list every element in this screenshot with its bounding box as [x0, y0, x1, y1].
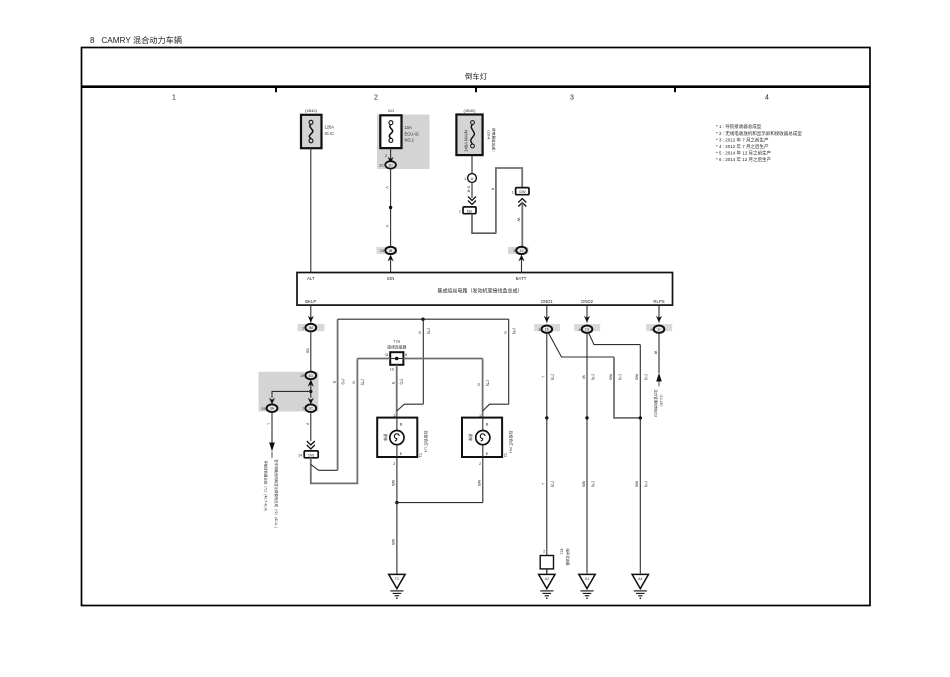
wire L (*3) down — [546, 333, 548, 574]
riser wire R(*4) (thick) — [337, 319, 339, 470]
svg-text:3: 3 — [538, 328, 540, 332]
arrow into 7(3C) — [308, 398, 314, 405]
svg-text:4: 4 — [765, 95, 769, 102]
svg-text:2: 2 — [543, 550, 545, 554]
svg-text:WB: WB — [581, 481, 585, 488]
svg-text:T1: T1 — [418, 453, 422, 457]
connector GW — [511, 188, 529, 195]
svg-text:R: R — [418, 331, 422, 334]
svg-text:2: 2 — [479, 462, 481, 466]
fuse F1 120A IG IC label (1B42) — [301, 108, 334, 148]
riser WB(*4) via jog (thick) — [614, 357, 640, 418]
wire pin10 to LH lamp (thick) — [396, 365, 398, 418]
svg-text:A1: A1 — [585, 577, 589, 581]
svg-text:(*3): (*3) — [591, 481, 595, 487]
svg-text:B: B — [400, 423, 403, 427]
svg-text:11: 11 — [385, 353, 389, 357]
jog LH pin1 — [397, 404, 423, 411]
wire W (*3) down — [586, 333, 588, 574]
svg-text:* 5 : 2014 年 12 月之前生产: * 5 : 2014 年 12 月之前生产 — [716, 150, 772, 157]
gray relay group region — [259, 372, 319, 412]
wire SB — [310, 332, 312, 372]
svg-text:导航接收器总成〈*1〉(40.7-41.4): 导航接收器总成〈*1〉(40.7-41.4) — [264, 461, 269, 511]
svg-text:R: R — [391, 382, 395, 385]
svg-text:3: 3 — [570, 95, 574, 102]
svg-text:14: 14 — [298, 454, 302, 458]
wire DD down and right — [472, 214, 496, 233]
arrow up into 3(1J) — [518, 255, 524, 262]
svg-text:DD: DD — [467, 209, 473, 213]
junction dot — [309, 390, 312, 393]
svg-text:3A: 3A — [270, 407, 275, 411]
T2a junction connector box — [390, 352, 403, 365]
svg-text:R: R — [490, 188, 494, 191]
wire P from 3C — [310, 412, 312, 441]
wire RLPS pin down — [658, 305, 660, 322]
svg-text:* 1 : 导航接收器总成型: * 1 : 导航接收器总成型 — [716, 123, 762, 130]
ground A2 — [539, 574, 555, 599]
svg-text:RLPS: RLPS — [653, 299, 664, 304]
connector 4(1G) — [574, 324, 600, 333]
wire junction below 4D — [310, 385, 312, 398]
connector 9(1I) — [646, 324, 672, 333]
arrow into 1(IM) — [308, 316, 314, 323]
connector 15(IB) at IGN — [377, 247, 398, 254]
svg-text:GW: GW — [519, 190, 526, 194]
svg-text:29: 29 — [261, 407, 265, 411]
svg-text:3C: 3C — [309, 407, 314, 411]
svg-text:(1B42): (1B42) — [463, 108, 476, 113]
svg-text:4Z1: 4Z1 — [560, 549, 564, 555]
svg-text:〈29-A: 〈29-A — [487, 128, 492, 140]
wire WB below LH lamp — [396, 457, 398, 503]
svg-text:V: V — [385, 186, 390, 189]
svg-text:T2a: T2a — [394, 340, 401, 344]
wire GND2 pin down — [586, 305, 588, 322]
svg-text:* 3 : 2012 年 7 月之前生产: * 3 : 2012 年 7 月之前生产 — [716, 137, 769, 144]
branch diagonal from 4(1G) — [589, 333, 641, 345]
svg-text:(*4): (*4) — [644, 374, 648, 380]
svg-text:2: 2 — [374, 95, 378, 102]
svg-text:E: E — [400, 452, 403, 456]
svg-text:SB: SB — [305, 348, 309, 354]
branch diagonal from 3(1E) — [549, 333, 615, 357]
arrow into 3(1E) — [544, 316, 550, 323]
jog RH pin1 — [483, 404, 509, 411]
arrow into 9(1I) — [656, 316, 662, 323]
svg-text:后组合灯 LH: 后组合灯 LH — [424, 431, 429, 453]
svg-text:W: W — [581, 375, 585, 379]
wire D-R from circle A — [471, 182, 473, 198]
wire WB(*4) down to ground A4 — [639, 345, 641, 574]
goes-to arrow (to navigation unit) — [269, 443, 275, 452]
svg-text:ALT: ALT — [307, 276, 315, 281]
ground A1 — [579, 574, 595, 599]
svg-text:9: 9 — [405, 353, 407, 357]
svg-text:(*5): (*5) — [485, 380, 489, 386]
arrow up into 15(IB) — [388, 255, 394, 262]
svg-text:15: 15 — [380, 249, 384, 253]
column tick 1-2 — [275, 87, 277, 93]
svg-text:L: L — [541, 376, 545, 378]
svg-text:10A: 10A — [405, 125, 413, 130]
wire V from 3D down — [390, 169, 392, 247]
svg-text:1J: 1J — [520, 249, 524, 253]
svg-text:NO.1: NO.1 — [405, 138, 415, 143]
svg-text:驻车辑助音响和显示屏模块总成〈*2〉(41.4- ): 驻车辑助音响和显示屏模块总成〈*2〉(41.4- ) — [274, 460, 279, 528]
svg-text:IGN: IGN — [387, 276, 395, 281]
connector 14(1N1) — [298, 451, 318, 458]
svg-text:GND1: GND1 — [541, 299, 554, 304]
arrow into 29(3A) — [269, 398, 275, 405]
svg-text:WB: WB — [635, 374, 639, 381]
connector 3C(3D) — [379, 161, 396, 168]
noise filter box — [540, 556, 553, 569]
T2a arms (thick) — [357, 358, 482, 360]
svg-text:WB: WB — [477, 480, 481, 487]
svg-text:动力管理控制ECU: 动力管理控制ECU — [654, 390, 659, 418]
svg-text:L: L — [266, 423, 270, 425]
svg-text:(*4): (*4) — [618, 374, 622, 380]
svg-text:(*6): (*6) — [512, 328, 516, 334]
svg-text:IG IC: IG IC — [325, 131, 335, 136]
svg-text:A: A — [471, 176, 474, 181]
svg-text:WB: WB — [635, 481, 639, 488]
wire up across to GW (thick) — [496, 168, 522, 233]
svg-text:接线连接器: 接线连接器 — [387, 345, 406, 350]
svg-text:D-R: D-R — [466, 186, 470, 193]
svg-text:(1B42): (1B42) — [305, 108, 318, 113]
wire up-arrow to IGN pin — [390, 260, 392, 273]
ground join — [395, 501, 398, 504]
svg-text:W: W — [516, 218, 520, 222]
svg-text:R: R — [476, 383, 480, 386]
svg-text:IM: IM — [309, 326, 313, 330]
svg-text:1: 1 — [511, 190, 513, 194]
svg-text:140A MAIN: 140A MAIN — [464, 130, 469, 152]
svg-text:1: 1 — [479, 413, 481, 417]
splice dot GND2 — [585, 416, 588, 419]
lamp unit LH 后组合灯 LH — [377, 413, 428, 466]
wire GND1 pin down — [546, 305, 548, 322]
svg-text:R: R — [352, 381, 356, 384]
wire BKLP pin down — [310, 305, 312, 322]
svg-text:1: 1 — [302, 326, 304, 330]
connector 3(1J) at BATT — [508, 247, 529, 254]
MAIN-BOX main junction box 集成熔丝电路 — [297, 273, 673, 306]
wire branch diagonal to R(*4) riser — [311, 464, 338, 470]
svg-text:10: 10 — [390, 368, 394, 372]
fuse F2 10A ECU-IG NO.1 panel — [377, 108, 430, 169]
svg-text:2: 2 — [393, 462, 395, 466]
connector DD — [459, 207, 476, 214]
drop wire to LH lamp jog — [422, 319, 424, 404]
svg-text:1: 1 — [459, 210, 461, 214]
svg-text:(*4): (*4) — [644, 481, 648, 487]
svg-text:A2: A2 — [545, 577, 549, 581]
wire L from 3A — [271, 412, 273, 443]
svg-text:(*3): (*3) — [551, 374, 555, 380]
double chevron into 1N1 — [307, 441, 315, 449]
svg-text:4: 4 — [578, 328, 580, 332]
svg-text:倒车灯: 倒车灯 — [465, 72, 488, 81]
svg-text:V: V — [385, 225, 390, 228]
svg-text:I1G: I1G — [388, 108, 394, 113]
splice dot on V wire — [389, 206, 392, 209]
svg-text:* 4 : 2012 年 7 月之后生产: * 4 : 2012 年 7 月之后生产 — [716, 143, 769, 150]
wire WB below RH lamp — [482, 457, 484, 503]
T2a center dot — [395, 357, 399, 361]
arrow into 4(1G) — [584, 316, 590, 323]
svg-text:T1: T1 — [395, 577, 399, 581]
svg-text:BATT: BATT — [516, 276, 527, 281]
svg-text:* 6 : 2014 年 12 月之后生产: * 6 : 2014 年 12 月之后生产 — [716, 156, 772, 163]
wire WB to ground T1 — [396, 503, 398, 574]
svg-text:R: R — [332, 381, 336, 384]
column tick 2-3 — [475, 87, 477, 93]
wire to ground A2 — [546, 569, 548, 574]
svg-text:9: 9 — [650, 328, 652, 332]
goes-to arrow up — [656, 373, 662, 382]
arrow up into 19(4D) — [308, 380, 314, 387]
svg-text:ECU-IG: ECU-IG — [405, 131, 419, 136]
title band divider — [82, 85, 871, 88]
svg-text:(*6): (*6) — [427, 328, 431, 334]
svg-text:T2: T2 — [503, 453, 507, 457]
svg-text:继电器盒总成〉: 继电器盒总成〉 — [492, 128, 497, 154]
wire W to power management ECU — [658, 333, 660, 373]
junction dot on feed bus — [421, 318, 424, 321]
double chevron below GW — [518, 199, 526, 207]
svg-text:倒车: 倒车 — [468, 434, 473, 442]
svg-text:P: P — [305, 423, 309, 426]
wire from 1N1 down right up to T2a arm (thick) — [311, 359, 358, 484]
svg-text:R: R — [503, 331, 507, 334]
wire to BATT pin — [521, 260, 523, 273]
svg-text:1: 1 — [464, 177, 466, 181]
column tick 3-4 — [674, 87, 676, 93]
wire W to BATT (thick) — [521, 203, 523, 247]
svg-text:集成熔丝电路（发动机室接线盒总成）: 集成熔丝电路（发动机室接线盒总成） — [437, 288, 522, 295]
svg-text:7: 7 — [302, 407, 304, 411]
svg-text:3C: 3C — [379, 164, 384, 168]
svg-text:WB: WB — [391, 480, 395, 487]
svg-text:1E: 1E — [545, 328, 550, 332]
splice dot GND1 — [545, 416, 548, 419]
ground T1 — [389, 574, 405, 599]
svg-text:倒车: 倒车 — [383, 434, 388, 442]
arrow into connector 3D — [388, 157, 394, 164]
svg-text:1I: 1I — [658, 328, 661, 332]
svg-text:1N1: 1N1 — [308, 453, 315, 457]
svg-text:W: W — [653, 351, 657, 355]
svg-text:19: 19 — [300, 374, 304, 378]
svg-text:噪声滤波器: 噪声滤波器 — [566, 549, 571, 567]
feed bus horizontal — [338, 318, 509, 320]
FOOTNOTES block — [716, 123, 802, 163]
lamp unit RH 后组合灯 RH — [462, 413, 513, 466]
svg-text:A4: A4 — [638, 577, 642, 581]
svg-text:1G: 1G — [585, 328, 590, 332]
ground A4 — [632, 574, 648, 599]
svg-text:3D: 3D — [388, 163, 393, 167]
connector 1(IM) — [298, 324, 325, 332]
svg-text:120A: 120A — [325, 125, 335, 130]
svg-text:〈10-1E〉: 〈10-1E〉 — [659, 393, 664, 409]
double chevron into DD — [468, 197, 476, 205]
connector 7(3C) — [302, 404, 316, 412]
svg-text:(*3): (*3) — [591, 374, 595, 380]
connector 19(4D) — [300, 372, 316, 380]
svg-text:(*2): (*2) — [400, 379, 404, 385]
junction dot WB riser — [639, 416, 642, 419]
wire fuse F1 to ALT pin — [310, 148, 312, 272]
svg-text:1: 1 — [393, 413, 395, 417]
svg-text:4D: 4D — [309, 374, 314, 378]
wire right arm to RH lamp (thick) — [482, 359, 484, 418]
svg-text:WB: WB — [608, 374, 612, 381]
svg-text:* 2 : 无线电收放机和显示屏和接收器总成型: * 2 : 无线电收放机和显示屏和接收器总成型 — [716, 130, 802, 137]
connector 3(1E) — [534, 324, 560, 333]
fuse F3 140A MAIN — [456, 108, 482, 155]
svg-text:后组合灯 RH: 后组合灯 RH — [508, 431, 513, 453]
connector 29(3A) — [261, 404, 277, 412]
page border frame — [82, 48, 871, 606]
wire branch left — [272, 391, 311, 397]
svg-text:(*3): (*3) — [551, 481, 555, 487]
svg-text:3: 3 — [513, 249, 515, 253]
svg-text:GND2: GND2 — [581, 299, 594, 304]
wire fuse F2 down — [390, 148, 392, 161]
drop wire to RH lamp jog — [508, 319, 510, 404]
svg-text:8 CAMRY 混合动力车辆: 8 CAMRY 混合动力车辆 — [90, 35, 182, 45]
svg-text:(*5): (*5) — [361, 379, 365, 385]
svg-text:L: L — [541, 483, 545, 485]
svg-text:(*4): (*4) — [341, 379, 345, 385]
connector circle A — [464, 155, 476, 182]
svg-text:WB: WB — [391, 539, 395, 546]
svg-text:1: 1 — [172, 95, 176, 102]
svg-text:BKLP: BKLP — [305, 299, 316, 304]
